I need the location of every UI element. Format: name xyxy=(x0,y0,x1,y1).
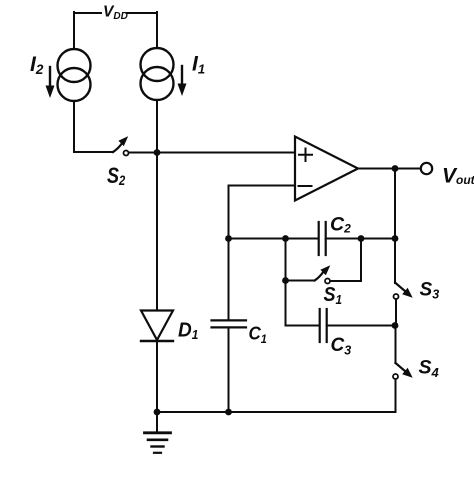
terminal Vout xyxy=(421,163,432,174)
wire left branch from VDD to I2 xyxy=(73,12,75,49)
wire I2 bottom to S2 node xyxy=(73,101,75,152)
wire C2 rail left xyxy=(229,238,319,240)
wire C1 bottom vertical xyxy=(228,328,230,412)
diode D1 xyxy=(141,311,173,342)
switch S2 xyxy=(113,136,129,155)
junction C3 / S3-S4 node xyxy=(392,322,399,329)
junction C2 rail / feedback xyxy=(392,235,399,242)
wire C1 top vertical xyxy=(228,239,230,320)
wire diode to ground node xyxy=(156,341,158,412)
wire S4 bottom xyxy=(395,380,397,413)
wire C3 rail left xyxy=(286,325,320,327)
op-amp U1 xyxy=(295,137,358,201)
capacitor C2 xyxy=(319,222,326,255)
wire S1 left vertical xyxy=(285,239,287,281)
current source I1 xyxy=(141,48,187,100)
capacitor C3 xyxy=(320,309,327,342)
switch S1 xyxy=(315,265,331,283)
wire I1 bottom to node A xyxy=(156,100,158,152)
junction C2 rail / S1 branch xyxy=(282,235,289,242)
wire node A down to diode D1 xyxy=(156,153,158,311)
junction ground node xyxy=(154,409,161,416)
wire S2 to op-amp + input xyxy=(129,152,295,154)
wire right branch from VDD to I1 xyxy=(156,12,158,48)
junction C2 rail / S1 right branch xyxy=(358,235,365,242)
wire bottom rail xyxy=(157,411,396,413)
switch S3 xyxy=(394,283,413,299)
wire S1 right up to C2 rail xyxy=(331,239,362,282)
wire S4 top vertical xyxy=(395,326,397,364)
ground xyxy=(145,412,171,453)
wire op-amp inverting input xyxy=(229,186,296,239)
wire S1 left horizontal xyxy=(286,280,315,282)
wire S3 top vertical xyxy=(394,239,396,284)
switch S4 xyxy=(393,363,413,379)
junction C2 rail / inverting input xyxy=(225,235,232,242)
current source I2 xyxy=(46,49,91,101)
wire S2 left xyxy=(74,151,113,153)
capacitor C1 xyxy=(212,320,247,327)
wire S3 bottom xyxy=(395,300,397,326)
junction S1 left node xyxy=(282,277,289,284)
wire op-amp output xyxy=(358,168,421,170)
junction output node xyxy=(392,165,399,172)
junction node A xyxy=(154,149,161,156)
wire C2 rail right xyxy=(326,238,395,240)
wire C3 rail right xyxy=(327,325,395,327)
wire VDD top right segment xyxy=(127,12,158,14)
wire VDD top left segment xyxy=(74,12,101,14)
junction C1 bottom on rail xyxy=(225,409,232,416)
wire S1 node down to C3 rail xyxy=(285,281,287,326)
wire feedback vertical xyxy=(394,169,396,239)
